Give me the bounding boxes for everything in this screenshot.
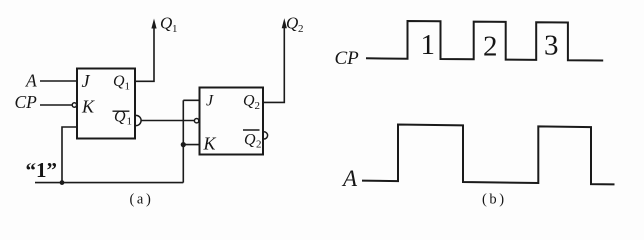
junction dot: rail to FF1 riser (60, 180, 65, 185)
inverting bubble on FF2 clock input (194, 119, 198, 123)
svg-text:K: K (203, 134, 217, 154)
wire: logic-1 rail (35, 182, 183, 184)
svg-text:1: 1 (125, 81, 131, 93)
svg-text:“1”: “1” (26, 158, 58, 182)
svg-text:2: 2 (483, 31, 498, 63)
svg-text:(a): (a) (130, 192, 154, 208)
wire: FF1 Q1bar to FF2 clock (141, 120, 194, 122)
FF1 pin label Q1bar (113, 110, 130, 112)
svg-text:Q: Q (160, 14, 172, 33)
svg-text:Q: Q (114, 109, 126, 126)
svg-text:2: 2 (255, 100, 261, 112)
wire: logic-1 rail riser to FF1 lower input (62, 127, 77, 183)
arrowhead Q2 (282, 18, 287, 28)
svg-text:J: J (82, 71, 91, 91)
wire: FF2 K input (183, 144, 199, 146)
arrowhead Q1 (151, 19, 156, 29)
inverting bubble on FF2 Q2bar output (264, 132, 268, 139)
inverting bubble on FF1 K input (72, 103, 76, 107)
svg-text:K: K (81, 97, 95, 117)
flip-flop FF2 box (200, 88, 264, 155)
wire: FF2 J input tie (183, 99, 199, 101)
waveform trace CP (366, 21, 603, 61)
svg-text:Q: Q (244, 132, 256, 149)
junction dot: tie to FF2 K (181, 142, 186, 147)
inverting bubble on FF1 Q1bar output (136, 115, 141, 125)
svg-text:A: A (25, 71, 37, 91)
wire: FF1 Q1 output up to arrow (135, 28, 154, 82)
svg-text:(b): (b) (482, 192, 507, 208)
svg-text:1: 1 (172, 23, 178, 35)
wire: input A to FF1 J (40, 80, 77, 82)
FF2 pin label Q2bar (243, 129, 260, 131)
svg-text:Q: Q (286, 14, 298, 33)
flip-flop FF1 box (77, 69, 135, 139)
svg-text:Q: Q (243, 93, 255, 110)
svg-text:2: 2 (298, 23, 304, 35)
svg-text:A: A (341, 166, 358, 191)
svg-text:1: 1 (421, 29, 436, 61)
svg-text:CP: CP (15, 92, 38, 112)
wire: FF2 Q2 output up to arrow (263, 28, 284, 103)
wire: input CP to FF1 K bubble (40, 104, 72, 106)
wire: vertical tie from FF2 J down to logic-1 rail (182, 100, 184, 182)
svg-text:CP: CP (335, 48, 360, 69)
waveform trace A (362, 125, 615, 185)
svg-text:3: 3 (544, 30, 559, 62)
svg-text:2: 2 (256, 139, 262, 151)
svg-text:1: 1 (127, 116, 133, 128)
svg-text:J: J (206, 93, 214, 110)
svg-text:Q: Q (113, 73, 125, 90)
